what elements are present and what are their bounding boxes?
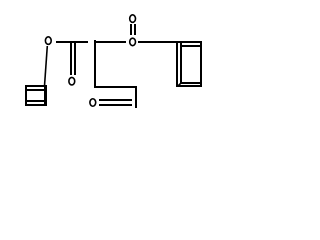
bond C3 vertical (chain corner down) <box>94 40 96 87</box>
ring2 outer left edge <box>176 41 178 87</box>
bond O1-C2 (horizontal) <box>56 41 88 43</box>
double bond C2=O2 (carbonyl, two verticals) <box>70 41 72 75</box>
atom O2 (carbonyl oxygen below C2) <box>69 77 75 85</box>
ring1 right edge double band <box>44 85 47 106</box>
ring1 inner bottom line <box>27 100 44 102</box>
bond C3-O3 (horizontal to ester oxygen) <box>94 41 126 43</box>
ring2 inner top line <box>181 45 200 47</box>
double bond O3=O4 (two short verticals) <box>130 24 132 35</box>
atom O1 (ester alkoxy oxygen, top-left) <box>45 37 51 45</box>
bond C4-C5 chain vertical <box>135 87 137 108</box>
ring2 outer bottom edge <box>176 85 202 87</box>
ring1 inner top line <box>27 89 44 91</box>
bond O3-ring2 (horizontal, merges into ring2 top edge) <box>138 41 202 43</box>
ring1 outer bottom edge <box>25 104 47 106</box>
bond C3-C4 chain horizontal <box>94 86 137 88</box>
ring1 outer top edge <box>25 85 45 87</box>
bond O1-ring1 (slightly slanted vertical) <box>45 46 48 86</box>
ring2 inner bottom line <box>181 82 201 84</box>
ring1 outer left edge <box>25 85 27 106</box>
double bond C5=O5 (aldehyde, two horizontals) <box>99 99 132 101</box>
ring2 corner wedge (diagonal join) <box>178 83 182 86</box>
atom O5 (aldehyde oxygen) <box>90 99 96 107</box>
atom O3 (ester oxygen) <box>130 38 136 46</box>
ring2 outer right edge <box>200 41 202 87</box>
ring2 inner left line <box>180 43 182 83</box>
atom O4 (top oxygen) <box>130 15 136 23</box>
